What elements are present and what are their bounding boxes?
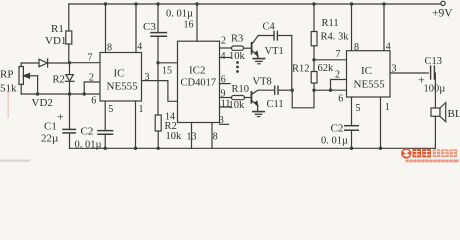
wire IC1 pin1 [135,101,137,148]
svg-text:C11: C11 [267,99,284,110]
svg-text:100µ: 100µ [424,84,446,95]
wire C4 down to node [291,36,293,91]
svg-text:VD1: VD1 [45,35,66,47]
capacitor C4 [258,31,292,40]
node bus-R2 [157,147,160,150]
node rail-C3 [156,2,159,5]
svg-text:4: 4 [386,41,391,52]
svg-text:R11: R11 [322,18,339,29]
resistor R11 [311,4,317,60]
diode VD1 [21,59,69,67]
wire node to IC3 pin2/6 column [314,89,331,91]
svg-text:13: 13 [187,132,197,143]
node R1-VD1-pin7 [68,61,71,64]
svg-text:BL: BL [448,108,460,120]
watermark text 维库 [413,149,431,158]
svg-text:NE555: NE555 [354,79,386,91]
node rail-IC2p16 [195,2,198,5]
svg-text:R12: R12 [292,64,310,75]
svg-text:5: 5 [108,104,113,115]
wire IC2 pin15 [158,62,178,64]
wire IC2 pin9 + resistor R10 [220,96,252,100]
capacitor C2 (right, on IC3 pin5) [345,97,358,148]
wire IC3 pin3 [390,72,428,74]
scan artifact: gray smudge bottom-left [0,160,30,162]
svg-text:10k: 10k [229,51,246,62]
capacitor C13 [431,66,436,108]
svg-text:RP: RP [0,69,13,81]
svg-text:C1: C1 [44,121,57,133]
svg-text:6: 6 [91,96,96,107]
capacitor C3 [151,4,166,63]
node bus-IC1p1 [134,147,137,150]
wire loop below node [292,90,314,108]
wire bottom node (RP bottom / pin6 / pin2) [21,93,100,95]
wire IC3 pin7 [314,59,347,61]
wire IC1 pin2 tie [84,82,100,94]
svg-text:C4: C4 [263,22,276,33]
svg-text:C2: C2 [81,126,94,138]
svg-text:0. 01µ: 0. 01µ [75,140,102,151]
node bus-C2r [350,147,353,150]
potentiometer RP [19,63,38,94]
svg-text:2: 2 [335,70,340,81]
node rail-IC3p8 [350,2,353,5]
svg-text:4: 4 [221,51,226,62]
node dots between pin4 and pin6 of IC2 (vertical ellipsis) [236,61,239,73]
svg-text:IC: IC [361,65,372,77]
wire IC3 pin4 [383,4,385,51]
svg-text:4: 4 [137,42,142,53]
capacitor C1 [63,94,75,148]
capacitor C2 (left, on IC1 pin5) [98,101,113,148]
svg-text:3: 3 [219,115,224,126]
svg-text:C3: C3 [143,21,156,33]
wire IC2 pin8 [211,123,213,149]
paper background [0,0,460,164]
node RP wiper tie [36,92,39,95]
svg-text:2: 2 [89,73,94,84]
+9V terminal [441,1,445,5]
op-amp U1 box: IC1 NE555 [100,53,142,102]
svg-text:VT8: VT8 [253,77,272,88]
svg-text:3: 3 [392,64,397,75]
svg-text:1: 1 [139,104,144,115]
svg-text:IC: IC [114,68,125,80]
wire +9V rail [69,3,441,5]
svg-text:7: 7 [336,49,341,60]
resistor R12 [311,60,317,90]
wire IC2 pin2 + resistor R3 [220,46,252,50]
svg-text:R3: R3 [231,34,243,45]
wire IC3 pin8 [351,4,353,51]
svg-text:16: 16 [184,20,194,31]
svg-text:5: 5 [356,103,361,114]
svg-text:CD4017: CD4017 [181,78,217,89]
resistor R2 [155,63,161,149]
svg-text:R1: R1 [51,23,64,35]
svg-text:0. 01µ: 0. 01µ [166,9,193,20]
op-amp U2 box: IC2 CD4017 [178,41,220,122]
node bus-IC3p1 [379,147,382,150]
wire IC2 pin3 stub [220,123,229,125]
svg-text:VD2: VD2 [32,97,53,109]
node C3-R2-pin15 [156,61,159,64]
watermark text 电子市场网 (faded) [433,149,457,157]
svg-text:C13: C13 [425,56,443,67]
wire IC1 pin4 [135,4,137,53]
node rail-IC1p8 [104,2,107,5]
node pin2/6 tie [329,89,332,92]
svg-text:6: 6 [338,94,343,105]
wire IC1 pin7 [70,62,101,64]
svg-text:1: 1 [385,102,390,113]
wire IC3 pin6 [331,89,347,91]
svg-text:62k: 62k [318,63,335,74]
svg-text:22µ: 22µ [41,133,58,145]
svg-text:0. 01µ: 0. 01µ [321,136,348,147]
svg-text:7: 7 [88,53,93,64]
wire IC1 pin8 [105,4,107,53]
svg-text:R10: R10 [232,84,250,95]
svg-text:+9V: +9V [432,8,453,20]
capacitor C11 [258,86,292,94]
svg-text:C2: C2 [331,123,344,135]
diode VD2 (vertical, below R1 junction) [66,63,75,94]
node rail-IC3p4 [382,2,385,5]
node pin2 tie [83,92,86,95]
node rail-IC1p4 [134,2,137,5]
node R11-R12-pin7 [312,58,315,61]
svg-text:IC2: IC2 [189,65,206,77]
op-amp U3 box: IC3 NE555 [347,51,391,97]
node VD2-C1 [68,92,71,95]
wire IC2 pin16 [196,4,198,41]
svg-text:8: 8 [354,42,359,53]
node rail-R11 [312,2,315,5]
wire IC2 pin11 stub [220,106,232,108]
svg-text:10k: 10k [166,131,183,142]
node bus-C2l [104,147,107,150]
wire IC3 pin2 [331,80,347,91]
wire IC3 pin1 [380,97,382,148]
svg-text:8: 8 [107,43,112,54]
speaker BL [431,103,446,149]
wire IC2 pin6 stub [220,83,231,85]
scan artifact: faint pink line at left edge [8,92,9,118]
wire IC1 pin3 to IC2 pin14 [142,81,178,102]
svg-text:3: 3 [145,72,150,83]
svg-text:8: 8 [213,132,218,143]
svg-text:2: 2 [221,36,226,47]
wire ground bus [70,147,436,149]
wire IC2 pin4 stub [220,57,231,59]
svg-text:NE555: NE555 [107,81,139,93]
watermark logo circle [401,148,411,158]
wire IC2 pin13 [191,123,193,149]
svg-text:10k: 10k [229,100,246,111]
node C4-C11 [291,89,294,92]
transistor Q1 VT1 [252,36,259,59]
svg-text:VT1: VT1 [265,46,284,57]
ground (VT1 emitter) [253,59,264,64]
svg-text:15: 15 [162,66,172,77]
ground (VT8 emitter) [253,112,264,117]
svg-text:+: + [57,110,64,124]
svg-text:R2: R2 [53,74,65,85]
node R12 bottom [312,89,315,92]
svg-text:R4. 3k: R4. 3k [321,32,350,43]
svg-text:6: 6 [221,74,226,85]
transistor Q8 VT8 [251,90,258,111]
watermark small red caption [406,160,459,163]
resistor R1 [66,4,72,63]
